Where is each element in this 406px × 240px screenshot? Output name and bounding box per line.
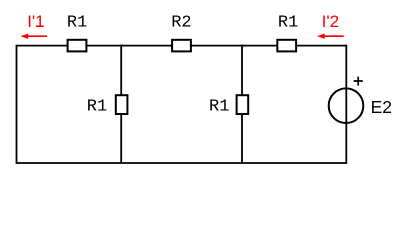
wire: middle branch 1 vertical <box>120 46 122 163</box>
wire: right vertical through source <box>345 45 347 164</box>
wire: middle branch 2 vertical <box>241 46 243 163</box>
current arrow I'1 shaft <box>27 35 47 37</box>
resistor R1 (top left) body <box>68 40 87 52</box>
resistor R1 (shunt right) body <box>237 95 249 114</box>
source E2 circle <box>329 88 364 123</box>
resistor R2 (top middle) body <box>172 40 191 52</box>
resistor R1 (shunt left) body <box>116 95 128 114</box>
svg-text:I'1: I'1 <box>27 12 44 31</box>
current arrow I'2 head <box>317 34 325 39</box>
node A: junction branch1/top bus <box>120 45 124 47</box>
source E2 internal wire <box>345 88 347 123</box>
svg-text:I'2: I'2 <box>322 12 339 31</box>
svg-text:R1: R1 <box>67 14 87 33</box>
svg-text:R1: R1 <box>87 97 107 116</box>
svg-text:R1: R1 <box>209 97 229 116</box>
resistor R1 (top right) body <box>277 40 296 52</box>
current arrow I'2 shaft <box>324 35 344 37</box>
wire: top horizontal bus <box>17 45 347 47</box>
svg-text:R1: R1 <box>278 14 298 33</box>
source E2 plus polarity mark <box>354 77 363 86</box>
svg-text:R2: R2 <box>171 14 191 33</box>
wire: bottom horizontal bus <box>17 162 347 164</box>
wire: left vertical <box>16 45 18 164</box>
svg-text:E2: E2 <box>371 97 392 117</box>
current arrow I'1 head <box>21 34 29 39</box>
current label I'1 digit serif foot <box>36 25 43 27</box>
node B: junction branch2/top bus <box>240 45 244 47</box>
